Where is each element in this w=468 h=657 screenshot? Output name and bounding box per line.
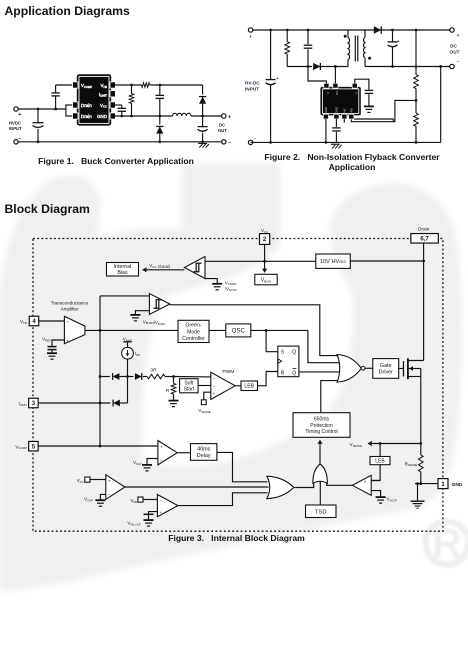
svg-text:Mode: Mode (187, 329, 200, 335)
svg-text:40ms: 40ms (197, 447, 210, 453)
svg-text:Green-: Green- (185, 323, 201, 329)
svg-text:R: R (281, 370, 285, 376)
svg-text:DC: DC (219, 123, 225, 128)
svg-text:VCOMP: VCOMP (15, 444, 27, 450)
svg-text:Amplifier: Amplifier (61, 307, 79, 312)
svg-text:INPUT: INPUT (9, 126, 22, 131)
svg-text:VCC: VCC (77, 478, 84, 484)
svg-text:R: R (166, 388, 170, 394)
svg-text:–: – (228, 140, 231, 146)
svg-text:Figure 3. Internal Block Dia: Figure 3. Internal Block Diagram (168, 533, 305, 543)
svg-text:VOVP: VOVP (84, 497, 93, 503)
svg-text:Delay: Delay (197, 453, 211, 459)
svg-text:Drain: Drain (81, 103, 92, 108)
svg-text:GND: GND (324, 106, 328, 114)
svg-text:/VSTOP: /VSTOP (225, 286, 237, 292)
svg-text:Block Diagram: Block Diagram (5, 202, 91, 216)
svg-text:+: + (66, 338, 69, 343)
svg-text:+: + (213, 391, 216, 396)
svg-text:VREF: VREF (42, 337, 51, 343)
svg-text:LEB: LEB (244, 384, 254, 390)
svg-text:R: R (432, 520, 462, 566)
svg-text:VCC Good: VCC Good (149, 263, 170, 270)
svg-text:+: + (457, 33, 460, 39)
svg-text:GND: GND (97, 114, 108, 119)
svg-text:VFB: VFB (130, 498, 137, 504)
svg-text:IPK: IPK (135, 351, 140, 357)
svg-text:+: + (160, 510, 163, 515)
svg-text:RSENSE: RSENSE (405, 461, 418, 467)
svg-text:Q: Q (292, 350, 296, 356)
svg-text:GND: GND (452, 482, 463, 488)
svg-text:+: + (364, 479, 367, 484)
svg-text:LEB: LEB (375, 458, 385, 464)
svg-text:HV: HV (335, 91, 339, 95)
svg-text:−: − (108, 492, 111, 497)
svg-text:OUT: OUT (450, 50, 460, 55)
svg-text:+: + (108, 478, 111, 483)
svg-text:3R: 3R (150, 368, 157, 374)
svg-text:ILIMIT: ILIMIT (18, 401, 27, 407)
svg-text:–: – (254, 136, 257, 141)
svg-text:DC: DC (450, 43, 457, 48)
svg-text:6,7: 6,7 (420, 236, 429, 242)
svg-text:650ms: 650ms (314, 417, 330, 423)
svg-text:V: V (354, 92, 358, 94)
svg-text:+: + (160, 444, 163, 449)
svg-text:HV-DC: HV-DC (245, 80, 260, 85)
svg-text:VFB_OLP: VFB_OLP (127, 521, 141, 527)
svg-text:V: V (326, 92, 330, 94)
svg-text:Q: Q (292, 370, 296, 376)
svg-text:Figure 2. Non-Isolation Flyb: Figure 2. Non-Isolation Flyback Converte… (264, 152, 440, 162)
svg-text:S: S (281, 350, 285, 356)
svg-text:+: + (18, 112, 21, 118)
svg-text:Figure 1. Buck Converter App: Figure 1. Buck Converter Application (38, 156, 194, 166)
svg-text:Bias: Bias (117, 270, 128, 276)
svg-text:OUT: OUT (218, 128, 227, 133)
svg-text:GND: GND (334, 106, 338, 114)
svg-text:−: − (213, 376, 216, 381)
svg-text:−: − (160, 498, 163, 503)
svg-text:+: + (228, 114, 231, 120)
svg-text:Gate: Gate (380, 363, 392, 369)
svg-text:Controller: Controller (182, 336, 205, 342)
svg-text:FB: FB (349, 108, 353, 112)
svg-text:−: − (364, 489, 367, 494)
svg-text:Application Diagrams: Application Diagrams (5, 4, 131, 18)
svg-text:Timing Control: Timing Control (305, 429, 337, 435)
svg-text:INPUT: INPUT (245, 86, 259, 91)
svg-text:VCC: VCC (261, 228, 268, 234)
svg-text:VSTART: VSTART (225, 280, 237, 286)
svg-text:OSC: OSC (232, 329, 246, 335)
svg-text:−: − (213, 383, 216, 388)
svg-text:Driver: Driver (379, 370, 394, 376)
svg-text:Protection: Protection (310, 423, 333, 429)
svg-text:+: + (249, 35, 252, 41)
svg-text:Application: Application (329, 162, 376, 172)
svg-text:–: – (457, 60, 460, 65)
svg-text:PWM: PWM (222, 369, 234, 375)
svg-text:VFB: VFB (20, 319, 27, 325)
svg-text:−: − (66, 319, 69, 324)
svg-text:HVDC: HVDC (9, 120, 21, 125)
svg-text:−: − (160, 457, 163, 462)
svg-text:TSD: TSD (315, 509, 327, 515)
svg-text:Drain: Drain (81, 114, 92, 119)
svg-text:Start: Start (184, 386, 195, 392)
svg-text:Drain: Drain (418, 226, 430, 232)
svg-text:Transconductance: Transconductance (51, 301, 89, 306)
